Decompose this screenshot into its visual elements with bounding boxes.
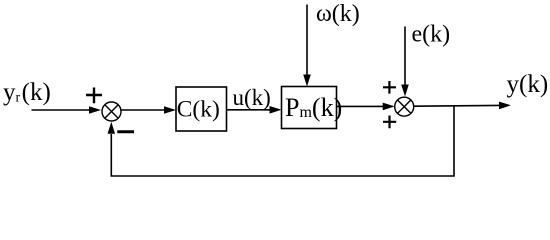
svg-text:C(k): C(k) bbox=[177, 97, 220, 123]
svg-text:y(k): y(k) bbox=[507, 71, 549, 98]
svg-text:yr(k): yr(k) bbox=[3, 79, 51, 106]
svg-text:Pm(k): Pm(k) bbox=[285, 93, 342, 122]
svg-text:u(k): u(k) bbox=[233, 85, 271, 110]
svg-text:ω(k): ω(k) bbox=[316, 1, 360, 27]
svg-text:e(k): e(k) bbox=[412, 22, 451, 48]
